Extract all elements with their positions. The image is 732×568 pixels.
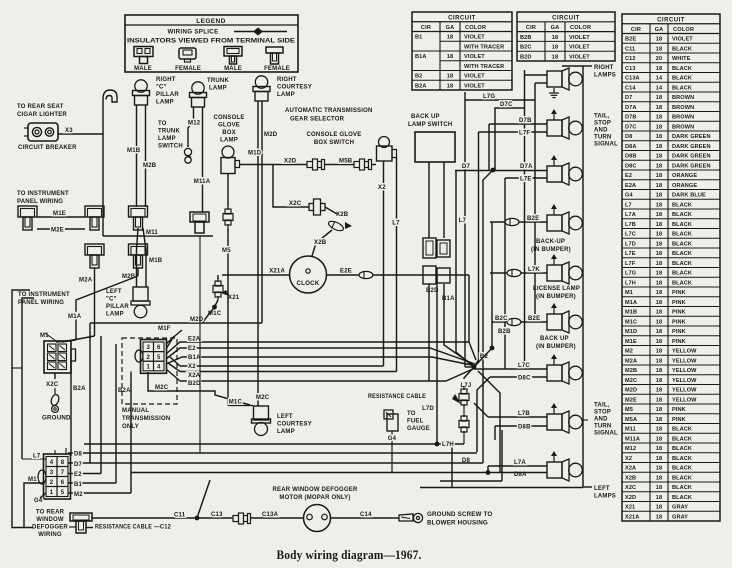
legend female insulator A [179,48,196,59]
svg-text:LAMPS: LAMPS [594,494,616,500]
svg-text:PILLAR: PILLAR [156,92,179,98]
label left lamps [583,486,592,488]
svg-text:18: 18 [656,271,662,277]
svg-text:7: 7 [61,470,65,476]
svg-text:PINK: PINK [672,319,686,325]
svg-text:E2A: E2A [625,183,636,189]
wire L7F [479,131,548,133]
circuit breaker X3 [28,123,58,141]
back up lamp switch box [415,132,455,162]
junction L7 fan [472,365,477,370]
svg-text:B2D: B2D [188,381,201,387]
svg-text:L7C: L7C [518,363,530,369]
right lamp 8 tail [547,414,562,430]
wire G4 long line to left lamps [131,472,547,474]
svg-text:TO REAR SEAT: TO REAR SEAT [17,104,64,110]
svg-text:M2D: M2D [264,132,278,138]
wire M2D horizontal [202,307,215,323]
wire X21A [222,274,290,276]
svg-text:GRAY: GRAY [672,505,688,511]
wire L7K to license lamp [490,272,547,274]
svg-text:D8B: D8B [625,154,637,160]
svg-text:COURTESY: COURTESY [277,85,312,91]
svg-text:TO: TO [407,411,416,417]
svg-text:VIOLET: VIOLET [569,54,590,60]
wire L7C [474,368,547,370]
console glove box lamp [222,146,234,158]
svg-text:18: 18 [552,45,558,51]
svg-text:M11: M11 [625,427,636,433]
svg-text:PINK: PINK [672,310,686,316]
svg-text:X2C: X2C [46,382,59,388]
svg-text:B1A: B1A [188,355,201,361]
svg-text:COLOR: COLOR [465,25,486,31]
wire M2D lead [166,330,182,344]
svg-text:M11A: M11A [625,436,640,442]
svg-text:L7F: L7F [625,261,636,267]
svg-text:M12: M12 [625,446,636,452]
svg-text:M1: M1 [625,290,633,296]
svg-text:X2A: X2A [188,373,201,379]
svg-text:M2D: M2D [625,388,637,394]
wire E2E down to E2A bus [468,275,470,342]
svg-text:M2B: M2B [625,368,637,374]
svg-text:18: 18 [656,241,662,247]
svg-text:BLACK: BLACK [672,232,692,238]
svg-text:WITH TRACER: WITH TRACER [464,64,504,70]
svg-text:CIRCUIT: CIRCUIT [657,17,685,23]
svg-text:C14: C14 [360,512,372,518]
svg-text:6: 6 [157,345,161,351]
svg-text:CIR: CIR [526,25,536,31]
right lamp 1 [547,71,562,87]
wire M1A [137,268,139,276]
wire B2E to backup lamp 2 [492,321,547,323]
svg-text:X2: X2 [378,185,386,191]
svg-text:CIRCUIT: CIRCUIT [552,16,580,22]
svg-text:M2A: M2A [79,278,93,284]
circuit table 3 (main wire list) [622,14,720,521]
svg-text:18: 18 [656,95,662,101]
svg-text:M1C: M1C [625,319,637,325]
svg-text:M5B: M5B [339,159,353,165]
svg-text:L7E: L7E [520,177,532,183]
svg-text:CLOCK: CLOCK [297,280,320,287]
svg-text:MOTOR (MOPAR ONLY): MOTOR (MOPAR ONLY) [279,495,350,501]
svg-text:3: 3 [146,345,150,351]
svg-text:M5A: M5A [625,417,637,423]
svg-text:TURN: TURN [594,135,611,141]
right lamp 9 left lamps [547,462,562,478]
svg-text:18: 18 [656,212,662,218]
left C pillar lamp [133,287,148,301]
svg-text:BLOWER HOUSING: BLOWER HOUSING [427,520,488,527]
svg-text:X21: X21 [228,295,240,301]
legend male insulator A [134,47,153,57]
wire X2C to ground [54,373,56,379]
svg-text:L7: L7 [392,221,400,227]
svg-text:LAMP: LAMP [220,138,238,144]
svg-text:M1B: M1B [625,310,637,316]
svg-text:VIOLET: VIOLET [672,37,693,43]
svg-text:M2A: M2A [625,358,637,364]
svg-text:E2A: E2A [188,337,201,343]
svg-text:BLACK: BLACK [672,446,692,452]
svg-text:GA: GA [446,25,455,31]
wire L7 trunk vertical [464,92,466,367]
connector hook at X3 wire [102,99,104,134]
label right lamps [583,65,592,67]
wire D7B [489,123,547,125]
svg-text:18: 18 [656,446,662,452]
svg-text:M2C: M2C [256,395,270,401]
trunk lamp switch connector [184,148,191,155]
svg-text:18: 18 [656,115,662,121]
legend box [125,15,298,72]
svg-text:DARK GREEN: DARK GREEN [672,163,711,169]
svg-text:14: 14 [656,85,663,91]
svg-text:L7G: L7G [625,271,636,277]
svg-text:18: 18 [656,358,662,364]
wire M1C to left courtesy lamp [228,405,253,407]
svg-text:M2C: M2C [625,378,637,384]
svg-text:B2: B2 [415,74,422,80]
svg-text:B2C: B2C [520,45,532,51]
svg-text:CIGAR LIGHTER: CIGAR LIGHTER [17,112,67,118]
svg-text:18: 18 [656,388,662,394]
wire to X2B connector [325,207,337,214]
svg-text:D7B: D7B [625,115,637,121]
svg-text:BLACK: BLACK [672,46,692,52]
svg-text:D8A: D8A [625,144,637,150]
svg-text:BROWN: BROWN [672,95,694,101]
wire D7 D7A [455,170,547,172]
svg-text:LEGEND: LEGEND [196,18,226,25]
svg-text:C13: C13 [211,512,223,518]
svg-text:18: 18 [447,54,453,60]
svg-text:BLACK: BLACK [672,485,692,491]
svg-text:L7: L7 [459,218,467,224]
svg-text:X2: X2 [625,456,632,462]
svg-text:LEFT: LEFT [277,414,293,420]
svg-text:BROWN: BROWN [672,124,694,130]
svg-text:B1A: B1A [415,54,427,60]
svg-text:FEMALE: FEMALE [175,66,201,72]
svg-text:D8C: D8C [518,376,531,382]
svg-text:MALE: MALE [134,66,152,72]
svg-text:1: 1 [50,490,54,496]
svg-text:TRUNK: TRUNK [207,78,229,84]
svg-text:STOP: STOP [594,121,611,127]
svg-text:18: 18 [656,514,662,520]
left courtesy lamp [254,406,269,420]
svg-text:18: 18 [656,349,662,355]
wire L7A [488,465,547,467]
circuit table 2 (B2B group) [517,12,615,61]
svg-text:BLACK: BLACK [672,427,692,433]
svg-text:X2C: X2C [625,485,636,491]
svg-text:CIRCUIT: CIRCUIT [448,15,476,21]
right lamp 3 [547,166,562,182]
svg-text:M2B: M2B [122,274,136,280]
svg-text:PINK: PINK [672,417,686,423]
svg-text:M2B: M2B [143,163,157,169]
svg-text:BOX SWITCH: BOX SWITCH [314,140,354,146]
svg-text:B2E: B2E [625,37,636,43]
svg-text:DEFOGGER: DEFOGGER [32,525,68,531]
wire D7 T-branch vertical [89,323,91,464]
connector X2B inline [327,219,345,232]
svg-text:D8: D8 [625,134,632,140]
svg-text:REAR WINDOW DEFOGGER: REAR WINDOW DEFOGGER [273,487,358,493]
svg-text:2: 2 [50,480,54,486]
svg-text:PANEL WIRING: PANEL WIRING [18,300,64,306]
svg-text:B2E: B2E [528,316,540,322]
svg-text:BLACK: BLACK [672,261,692,267]
bracket lines to instrument panel lower [12,290,33,528]
svg-text:X21A: X21A [269,269,285,275]
dashed box manual transmission only [122,338,177,404]
svg-text:M1F: M1F [158,326,171,332]
svg-text:BLACK: BLACK [672,202,692,208]
wire L7B [488,416,547,418]
connector X2C cross [309,204,325,211]
wire M1F lead [166,336,174,349]
connector block defogger [44,454,71,499]
svg-text:PANEL WIRING: PANEL WIRING [17,199,63,205]
svg-text:D7: D7 [625,95,632,101]
svg-text:C13: C13 [625,66,636,72]
svg-text:TO REAR: TO REAR [36,510,65,516]
svg-text:B2A: B2A [415,83,427,89]
svg-text:VIOLET: VIOLET [464,83,485,89]
svg-text:Body wiring diagram—1967.: Body wiring diagram—1967. [277,547,422,562]
instrument panel connector 1 [18,206,37,217]
svg-text:E2E: E2E [340,269,352,275]
svg-text:BLACK: BLACK [672,456,692,462]
svg-text:LAMP: LAMP [156,100,174,106]
svg-text:M1B: M1B [127,148,141,154]
svg-text:X21: X21 [625,505,635,511]
svg-text:VIOLET: VIOLET [464,74,485,80]
connector block M1 [44,341,71,373]
svg-text:D7B: D7B [519,118,532,124]
svg-text:C14: C14 [625,85,636,91]
svg-text:BACK-UP: BACK-UP [536,239,565,245]
svg-text:M1E: M1E [53,211,66,217]
connector on E2E wire [359,271,373,278]
svg-text:TO INSTRUMENT: TO INSTRUMENT [17,191,69,197]
svg-text:5: 5 [61,490,65,496]
svg-text:CONSOLE GLOVE: CONSOLE GLOVE [307,132,362,138]
wire L7 lead [22,458,46,460]
wire from fan down to long line [478,371,500,473]
svg-text:GLOVE: GLOVE [218,123,240,129]
gear selector lamp [379,137,390,148]
wire M2C lead [148,372,250,405]
svg-text:B2B: B2B [520,35,532,41]
svg-text:ORANGE: ORANGE [672,183,697,189]
svg-text:WHITE: WHITE [672,56,691,62]
trunk lamp [192,82,204,94]
svg-text:BLACK: BLACK [672,251,692,257]
svg-text:B2E: B2E [527,216,539,222]
svg-text:18: 18 [656,134,662,140]
svg-text:E2: E2 [625,173,632,179]
svg-text:M2C: M2C [155,385,169,391]
svg-text:BLACK: BLACK [672,76,692,82]
svg-text:8: 8 [61,460,65,466]
svg-text:M12: M12 [188,121,201,127]
svg-text:CIRCUIT BREAKER: CIRCUIT BREAKER [18,145,77,151]
svg-text:M2: M2 [625,349,633,355]
svg-text:GRAY: GRAY [672,514,688,520]
wire E2 bus [68,473,101,475]
wire from hook down to M11 [102,134,104,236]
svg-text:LAMP: LAMP [277,429,295,435]
svg-text:D7: D7 [462,164,471,170]
wire B1 bus [68,482,116,484]
wire B2A from M1 block [70,361,72,456]
svg-text:E2: E2 [188,346,196,352]
wires from back up lamp switch [428,162,430,238]
svg-text:BOX: BOX [222,130,236,136]
svg-text:TAIL,: TAIL, [594,403,610,409]
svg-text:M1A: M1A [625,300,637,306]
svg-text:18: 18 [656,310,662,316]
svg-text:M2E: M2E [51,228,64,234]
svg-text:DARK GREEN: DARK GREEN [672,154,711,160]
svg-text:BLACK: BLACK [672,475,692,481]
svg-text:GAUGE: GAUGE [407,426,430,432]
svg-text:BLACK: BLACK [672,222,692,228]
svg-text:18: 18 [656,144,662,150]
clock [290,256,327,293]
svg-text:COLOR: COLOR [570,25,591,31]
svg-text:M1B: M1B [149,258,163,264]
svg-text:B2A: B2A [118,388,131,394]
svg-text:YELLOW: YELLOW [672,349,697,355]
fuse X21 [217,275,219,279]
wire from C11 junction up [197,480,210,518]
wires into defogger block top [54,450,56,454]
svg-text:5: 5 [157,355,161,361]
svg-text:18: 18 [656,397,662,403]
svg-text:X2D: X2D [625,495,636,501]
wire M11A from trunk lamp [202,107,204,212]
svg-text:B1: B1 [415,35,422,41]
svg-text:BLACK: BLACK [672,212,692,218]
svg-text:X3: X3 [65,128,73,134]
svg-text:18: 18 [656,319,662,325]
svg-text:TAIL,: TAIL, [594,114,610,120]
wire corner segment right [440,480,502,482]
svg-text:M2D: M2D [190,317,204,323]
svg-text:"C": "C" [106,297,117,303]
wire D7C [495,108,525,170]
svg-text:YELLOW: YELLOW [672,397,697,403]
svg-text:BLACK: BLACK [672,466,692,472]
svg-text:3: 3 [50,470,54,476]
svg-text:VIOLET: VIOLET [464,35,485,41]
wire M2E [37,228,85,230]
svg-text:L7B: L7B [625,222,636,228]
svg-text:18: 18 [447,35,453,41]
svg-text:18: 18 [656,202,662,208]
svg-text:GA: GA [551,25,560,31]
wire G4 [391,431,393,473]
svg-text:4: 4 [50,460,54,466]
wire M11 horizontal [103,235,213,237]
instrument panel connector 5 [129,244,148,255]
svg-text:TRANSMISSION: TRANSMISSION [122,416,170,422]
svg-text:18: 18 [656,290,662,296]
svg-text:WINDOW: WINDOW [36,517,64,523]
svg-text:18: 18 [656,280,662,286]
svg-text:E2: E2 [74,472,82,478]
svg-text:RIGHT: RIGHT [594,65,614,71]
svg-text:18: 18 [656,261,662,267]
wire X2D with connectors M5B [240,164,377,166]
svg-text:RESISTANCE CABLE: RESISTANCE CABLE [95,524,152,531]
svg-text:LAMP: LAMP [277,92,295,98]
svg-text:18: 18 [552,35,558,41]
svg-text:C12: C12 [625,56,636,62]
svg-text:WIRING SPLICE: WIRING SPLICE [168,29,219,36]
svg-text:18: 18 [656,124,662,130]
wire D7 bus [68,462,483,464]
svg-text:M1: M1 [40,333,49,339]
wire E2E from clock [327,274,470,276]
wire C11 C13 bottom run [92,517,304,519]
wire L7D [436,275,438,444]
svg-text:M1D: M1D [625,329,637,335]
svg-text:18: 18 [656,505,662,511]
svg-text:AND: AND [594,128,608,134]
svg-text:BLACK: BLACK [672,280,692,286]
svg-text:18: 18 [656,329,662,335]
svg-text:ORANGE: ORANGE [672,173,697,179]
wire X2 vertical [383,161,385,366]
svg-text:YELLOW: YELLOW [672,358,697,364]
svg-text:LAMP: LAMP [106,312,124,318]
svg-text:M11: M11 [146,230,158,236]
right courtesy lamp [255,76,267,88]
svg-text:BLACK: BLACK [672,85,692,91]
svg-text:X2B: X2B [314,240,327,246]
svg-text:M1E: M1E [625,339,637,345]
svg-text:AUTOMATIC TRANSMISSION: AUTOMATIC TRANSMISSION [285,108,373,114]
svg-text:18: 18 [656,251,662,257]
svg-text:LEFT: LEFT [106,289,122,295]
wire leads right of block E2A E2 B1A X2 X2A B2D [166,342,469,354]
wire M2 bus [68,492,131,494]
svg-text:YELLOW: YELLOW [672,378,697,384]
svg-text:L7A: L7A [625,212,636,218]
svg-text:X2A: X2A [625,466,636,472]
svg-text:WITH TRACER: WITH TRACER [464,44,504,50]
svg-text:M5: M5 [222,248,231,254]
legend female insulator B [266,47,283,53]
svg-text:18: 18 [656,417,662,423]
svg-text:PILLAR: PILLAR [106,304,129,310]
svg-text:M5: M5 [625,407,633,413]
wire M5 console lamp down [227,174,229,207]
svg-text:D7A: D7A [625,105,637,111]
instrument panel connector 3 [129,206,148,217]
rear window defogger motor [304,505,331,532]
svg-text:MANUAL: MANUAL [122,408,149,414]
